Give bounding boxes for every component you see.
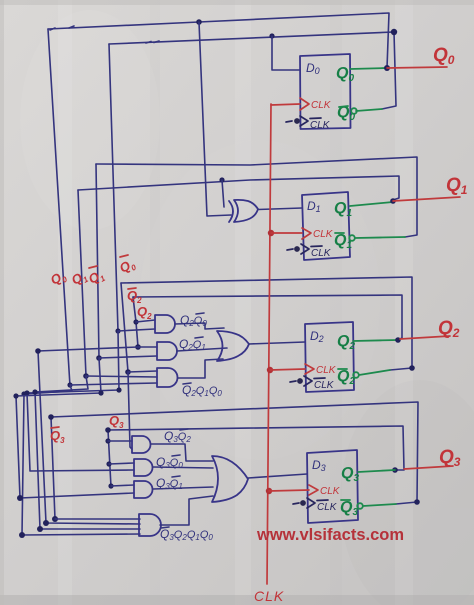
- clkbar triangle U0: [300, 116, 308, 126]
- and gate A1 (Q2.Q0bar): [155, 315, 175, 333]
- clock net CLK (red vertical): [267, 104, 271, 584]
- overbar in B3 label: [172, 476, 180, 477]
- wire Q1bar left bus vertical: [96, 164, 99, 358]
- wire Q2bar left bus vertical: [121, 283, 128, 372]
- wire Q1 left bus vertical: [78, 190, 86, 376]
- svg-text:CLK: CLK: [313, 229, 334, 240]
- overbar bus Q2bar: [128, 288, 136, 289]
- wire Q2 tap to AND1 top input: [136, 320, 155, 322]
- overbar of CLKbar U1: [311, 245, 322, 248]
- clkbar lead U0: [286, 121, 292, 122]
- node top Q0 tap: [196, 19, 202, 25]
- wire Q1bar loop (Q1bar output up over to left bus): [96, 157, 417, 237]
- wire B1 output to ORB input: [151, 444, 213, 461]
- clkbar triangle U1: [301, 244, 309, 254]
- wire B3 output to ORB input: [153, 487, 213, 489]
- wire Q3bar loop (Q3bar output up around to far left): [51, 402, 418, 504]
- wire Q1 tap down to XOR top input: [222, 180, 224, 207]
- clkbar triangle U2: [304, 376, 312, 386]
- node Q0bar lower corner: [24, 390, 29, 395]
- wire A1 output to OR2 top input: [175, 323, 224, 329]
- overbar in B2 label: [172, 455, 180, 456]
- node Q3bar top corner: [48, 414, 54, 420]
- wire Q0bar jog to B2 bottom input: [27, 331, 134, 471]
- wire Q3 green output: [358, 470, 395, 472]
- wire Q2bar tap to AND3 top input: [128, 371, 157, 372]
- overbar of CLKbar U2: [314, 377, 325, 380]
- wire Q1bar green output: [355, 237, 405, 238]
- node Q1bar bottom corner: [17, 495, 23, 501]
- wire XOR output to D1 input: [258, 208, 302, 210]
- node Q3 output junction: [392, 467, 398, 473]
- node CLK-U3: [266, 488, 272, 494]
- wire Q1 red output lead: [393, 197, 460, 201]
- clkbar bubble U1: [295, 247, 300, 252]
- overbar of Q2bar: [338, 368, 347, 370]
- wire Q3 red output lead: [404, 466, 453, 469]
- wire Q3 tap to B2 top input: [109, 463, 134, 464]
- overbar of CLKbar U3: [317, 499, 328, 502]
- node Q3bar bottom corner: [52, 516, 58, 522]
- svg-text:www.vlsifacts.com: www.vlsifacts.com: [256, 526, 404, 544]
- node Q1bar jog corner: [98, 390, 103, 395]
- wire A2 output to OR2 middle input: [177, 348, 227, 351]
- bubble Q0bar output: [351, 108, 357, 114]
- svg-text:CLK: CLK: [316, 365, 337, 376]
- tick marks on Q0bar top line: [146, 41, 159, 43]
- node Q0bar to AND1 tap: [115, 328, 120, 333]
- wire B2 output to ORB input: [153, 467, 213, 468]
- node Q2 bottom corner: [43, 520, 49, 526]
- or gate OB (D3 input): [212, 456, 248, 502]
- clkbar lead U3: [293, 503, 299, 504]
- node Q1bar lower corner: [13, 393, 18, 398]
- and gate B2 (Q3.Q0bar): [134, 459, 153, 476]
- node Q1 XOR tap: [219, 177, 224, 182]
- wire Q1bar tap to AND2 bottom input: [99, 356, 157, 358]
- svg-text:CLK: CLK: [317, 502, 338, 513]
- xor gate X1 (D1 input): [229, 200, 258, 222]
- node Q0bar top corner: [391, 29, 397, 35]
- node Q3 to B3 tap: [108, 483, 113, 488]
- clkbar lead U1: [287, 249, 293, 250]
- node Q2 branch corner: [35, 348, 41, 354]
- node Q0 jog corner: [21, 391, 26, 396]
- clock triangle U1 (red): [302, 228, 311, 239]
- svg-text:CLK: CLK: [254, 588, 284, 604]
- node Q3 to B1 tap: [105, 438, 110, 443]
- node Q1 to AND3 tap: [83, 373, 89, 379]
- clock triangle U0 (red): [300, 98, 309, 110]
- and gate B1 (Q3.Q2bar): [132, 436, 151, 453]
- wire Q0 top feedback (Q0 output up and across to left bus): [48, 13, 389, 68]
- wire Q3bar far-left vertical: [51, 417, 55, 519]
- flip-flop U0 (D0): [300, 54, 351, 129]
- wire CLK to U0: [271, 104, 300, 105]
- wire Q0 tap to AND3 bottom input: [70, 383, 157, 385]
- overbar in B1 label: [180, 429, 188, 430]
- svg-text:CLK: CLK: [314, 380, 335, 391]
- overbar of Q1bar: [335, 232, 344, 234]
- node Q3 to B2 tap: [106, 461, 111, 466]
- and gate B4 (Q3bar.Q2.Q1.Q0): [139, 514, 161, 536]
- and gate A2 (Q2.Q1bar): [157, 342, 177, 360]
- wire Q0bar green output: [356, 109, 382, 111]
- svg-text:CLK: CLK: [311, 248, 332, 259]
- svg-text:Q3Q2Q1Q0: Q3Q2Q1Q0: [160, 527, 213, 542]
- wire Q0 green output: [350, 68, 387, 69]
- overbar of Q3bar: [341, 499, 350, 501]
- node CLK-U2: [267, 367, 273, 373]
- overbar of Q0bar: [339, 106, 348, 107]
- node Q3bar corner: [414, 499, 420, 505]
- wire Q0 left bus vertical: [48, 29, 70, 386]
- wire Q1 tap to AND3 middle input: [86, 376, 157, 377]
- wire Q0bar left bus vertical: [109, 44, 118, 331]
- node Q1 jog corner: [32, 389, 37, 394]
- wire Q0 red output lead: [387, 67, 447, 68]
- node Q1bar to AND2 tap: [96, 355, 102, 361]
- node D0 input tap: [269, 33, 274, 38]
- overbar in A3 label: [183, 383, 191, 384]
- wire Q0 tap down to XOR bottom input: [199, 22, 231, 216]
- node Q1 junction: [390, 198, 396, 204]
- flip-flop U3 (D3): [307, 450, 358, 523]
- node Q3 corner: [105, 427, 111, 433]
- svg-text:CLK: CLK: [320, 486, 341, 497]
- wire Q2 green output: [353, 340, 398, 341]
- and gate A3 (Q2bar.Q1.Q0): [157, 368, 178, 387]
- node Q0 bottom corner: [19, 532, 25, 538]
- wire OB output to D3 input: [248, 474, 307, 478]
- wire Q2bar green output: [359, 370, 390, 375]
- wire CLK to U1: [271, 232, 302, 234]
- wire Q3bar green output: [363, 504, 396, 506]
- flip-flop U2 (D2): [305, 322, 354, 392]
- wire Q1bar jog to B3 bottom input: [16, 358, 134, 498]
- wire A3 output to OR2 bottom input: [178, 359, 223, 378]
- wire Q1 green output: [350, 202, 393, 206]
- wire Q2 red output lead: [400, 336, 450, 339]
- overbar bus Q1bar: [89, 266, 97, 268]
- node Q1 bottom corner: [37, 526, 43, 532]
- bubble Q1bar output: [349, 235, 355, 241]
- clkbar triangle U3: [307, 498, 315, 508]
- and gate B3 (Q3.Q1bar): [134, 481, 153, 498]
- overbar of CLKbar U0: [310, 117, 321, 120]
- node Q0 junction: [384, 65, 390, 71]
- wire Q2bar down to B1 bottom input: [128, 372, 132, 449]
- clock triangle U2 (red): [305, 364, 314, 374]
- node Q2 junction: [395, 337, 401, 343]
- node Q2bar to AND3 tap: [125, 369, 131, 375]
- wire Q2 left bus vertical: [133, 297, 138, 347]
- node Q0bar jog corner: [116, 387, 121, 392]
- wire Q3 tap to B1 top input: [108, 440, 132, 442]
- overbar in A1 label: [196, 313, 204, 314]
- wire Q3 tap to B3 top input: [111, 485, 134, 486]
- wire Q0 jog to bottom B4 input: [22, 385, 140, 535]
- wire B4 output to ORB input: [160, 496, 213, 525]
- wire Q3 loop (Q3 output up and left): [108, 426, 404, 470]
- wire CLK to U2: [270, 369, 305, 370]
- clkbar bubble U3: [301, 501, 306, 506]
- overbar in B4 label: [161, 527, 169, 528]
- wire Q3 left bus vertical: [108, 430, 111, 487]
- wire Q1 jog to B4 input: [35, 376, 140, 529]
- wire Q2 branch to B4 input: [38, 347, 140, 524]
- flip-flop U1 (D1): [302, 192, 350, 260]
- overbar bus Q3bar: [51, 427, 59, 428]
- node Q0 to AND3 tap: [67, 382, 72, 387]
- tick marks on Q0 top line: [50, 26, 74, 30]
- wire Q1 loop (Q1 output up over to left bus): [78, 176, 399, 200]
- node CLK-U1: [268, 230, 274, 236]
- wire Q3bar to B4 first input: [55, 518, 140, 520]
- clock triangle U3 (red): [309, 485, 318, 495]
- or gate O2 (D2 input): [217, 331, 249, 361]
- clkbar lead U2: [290, 381, 296, 382]
- wire Q2bar loop (Q2bar output up and left): [121, 277, 412, 370]
- wire O2 output to D2 input: [249, 342, 305, 344]
- overbar bus Q0bar: [120, 255, 128, 257]
- clkbar bubble U2: [298, 379, 303, 384]
- wire Q0bar tap to AND1 bottom input: [118, 329, 155, 331]
- bubble Q3bar output: [357, 503, 363, 509]
- wire D0 input drop: [272, 36, 300, 70]
- wire CLK to U3: [269, 490, 309, 491]
- bubble Q2bar output: [353, 372, 359, 378]
- node Q2 to AND1 tap: [133, 319, 138, 324]
- node Q2bar corner: [409, 365, 415, 371]
- clkbar bubble U0: [295, 119, 300, 124]
- overbar in A2 label: [195, 337, 203, 338]
- wire Q0bar top line (Q0bar output to D0 input and left bus): [109, 32, 396, 109]
- svg-text:CLK: CLK: [310, 120, 331, 131]
- svg-text:CLK: CLK: [311, 100, 332, 111]
- svg-text:Q2Q1Q0: Q2Q1Q0: [182, 383, 222, 398]
- wire Q2 loop (Q2 output up and left): [133, 295, 402, 340]
- wire Q2 tap to AND2 top input: [138, 346, 157, 348]
- node Q2 to AND2 tap: [135, 344, 141, 350]
